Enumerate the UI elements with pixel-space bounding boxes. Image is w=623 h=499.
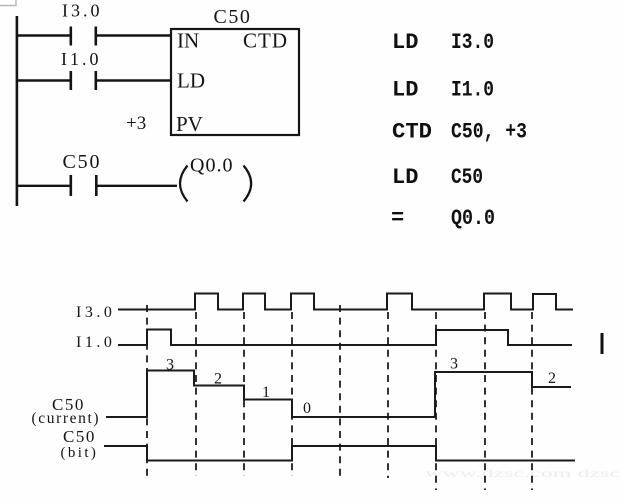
svg-text:I3.0: I3.0 xyxy=(76,304,115,321)
dashed grid line x=388 xyxy=(387,312,389,478)
right margin tick mark xyxy=(601,333,604,354)
counter box C50 CTD xyxy=(171,6,299,136)
dashed grid line x=244 xyxy=(243,312,245,476)
svg-text:C50: C50 xyxy=(214,6,252,28)
svg-text:CTD: CTD xyxy=(243,29,288,53)
svg-text:LD: LD xyxy=(392,165,418,190)
svg-text:1: 1 xyxy=(262,384,270,401)
svg-text:www.dzsc.com dzsc: www.dzsc.com dzsc xyxy=(425,466,620,480)
faint watermark xyxy=(425,466,620,480)
waveform C50 current xyxy=(32,356,572,428)
contact I1.0 xyxy=(61,49,102,90)
svg-text:2: 2 xyxy=(548,370,556,387)
dashed grid line x=532 xyxy=(531,312,533,490)
dashed grid line x=341 xyxy=(339,305,341,476)
IL line 5: = Q0.0 xyxy=(391,206,495,231)
svg-text:LD: LD xyxy=(392,78,418,103)
IL line 3: CTD C50, +3 xyxy=(392,120,527,145)
svg-text:Q0.0: Q0.0 xyxy=(190,155,233,177)
PV value label +3 xyxy=(126,113,146,134)
svg-text:I3.0: I3.0 xyxy=(451,30,494,55)
IL line 1: LD I3.0 xyxy=(392,30,494,55)
waveform I3.0 xyxy=(76,294,573,322)
svg-text:I1.0: I1.0 xyxy=(76,334,115,351)
svg-text:C50: C50 xyxy=(63,151,102,173)
wire rung 2 xyxy=(16,79,172,81)
svg-text:2: 2 xyxy=(214,371,222,388)
left power rail xyxy=(16,16,19,206)
svg-text:LD: LD xyxy=(392,30,418,55)
wire rung 1 xyxy=(16,34,172,36)
svg-text:I3.0: I3.0 xyxy=(62,1,103,21)
svg-text:+3: +3 xyxy=(126,113,146,134)
IL line 2: LD I1.0 xyxy=(392,78,494,103)
svg-text:CTD: CTD xyxy=(392,120,432,145)
svg-text:Q0.0: Q0.0 xyxy=(451,206,495,231)
svg-text:3: 3 xyxy=(166,357,174,374)
svg-text:IN: IN xyxy=(177,29,199,53)
svg-text:(bit): (bit) xyxy=(61,445,99,461)
contact I3.0 xyxy=(62,1,103,46)
svg-text:C50, +3: C50, +3 xyxy=(451,120,527,145)
waveform C50 bit xyxy=(61,427,576,461)
svg-text:C50: C50 xyxy=(451,165,483,190)
contact C50 xyxy=(63,151,102,196)
svg-text:C50: C50 xyxy=(63,427,96,446)
svg-text:I1.0: I1.0 xyxy=(451,78,494,103)
dashed grid line x=485 xyxy=(484,312,486,490)
corner artifact box xyxy=(0,0,16,6)
svg-text:=: = xyxy=(391,206,404,231)
svg-text:PV: PV xyxy=(176,112,203,136)
svg-text:I1.0: I1.0 xyxy=(61,49,102,69)
svg-text:3: 3 xyxy=(450,356,458,373)
dashed grid line x=292 xyxy=(291,312,293,476)
svg-text:0: 0 xyxy=(303,400,311,417)
svg-text:LD: LD xyxy=(177,69,205,93)
IL line 4: LD C50 xyxy=(392,165,483,190)
svg-text:(current): (current) xyxy=(32,410,101,427)
wire rung 3 xyxy=(16,185,177,187)
waveform I1.0 xyxy=(76,330,572,352)
dashed grid line x=436 xyxy=(435,312,437,490)
dashed grid line x=196 xyxy=(195,312,197,476)
coil Q0.0 xyxy=(180,155,251,202)
dashed grid line x=147 xyxy=(146,305,148,476)
